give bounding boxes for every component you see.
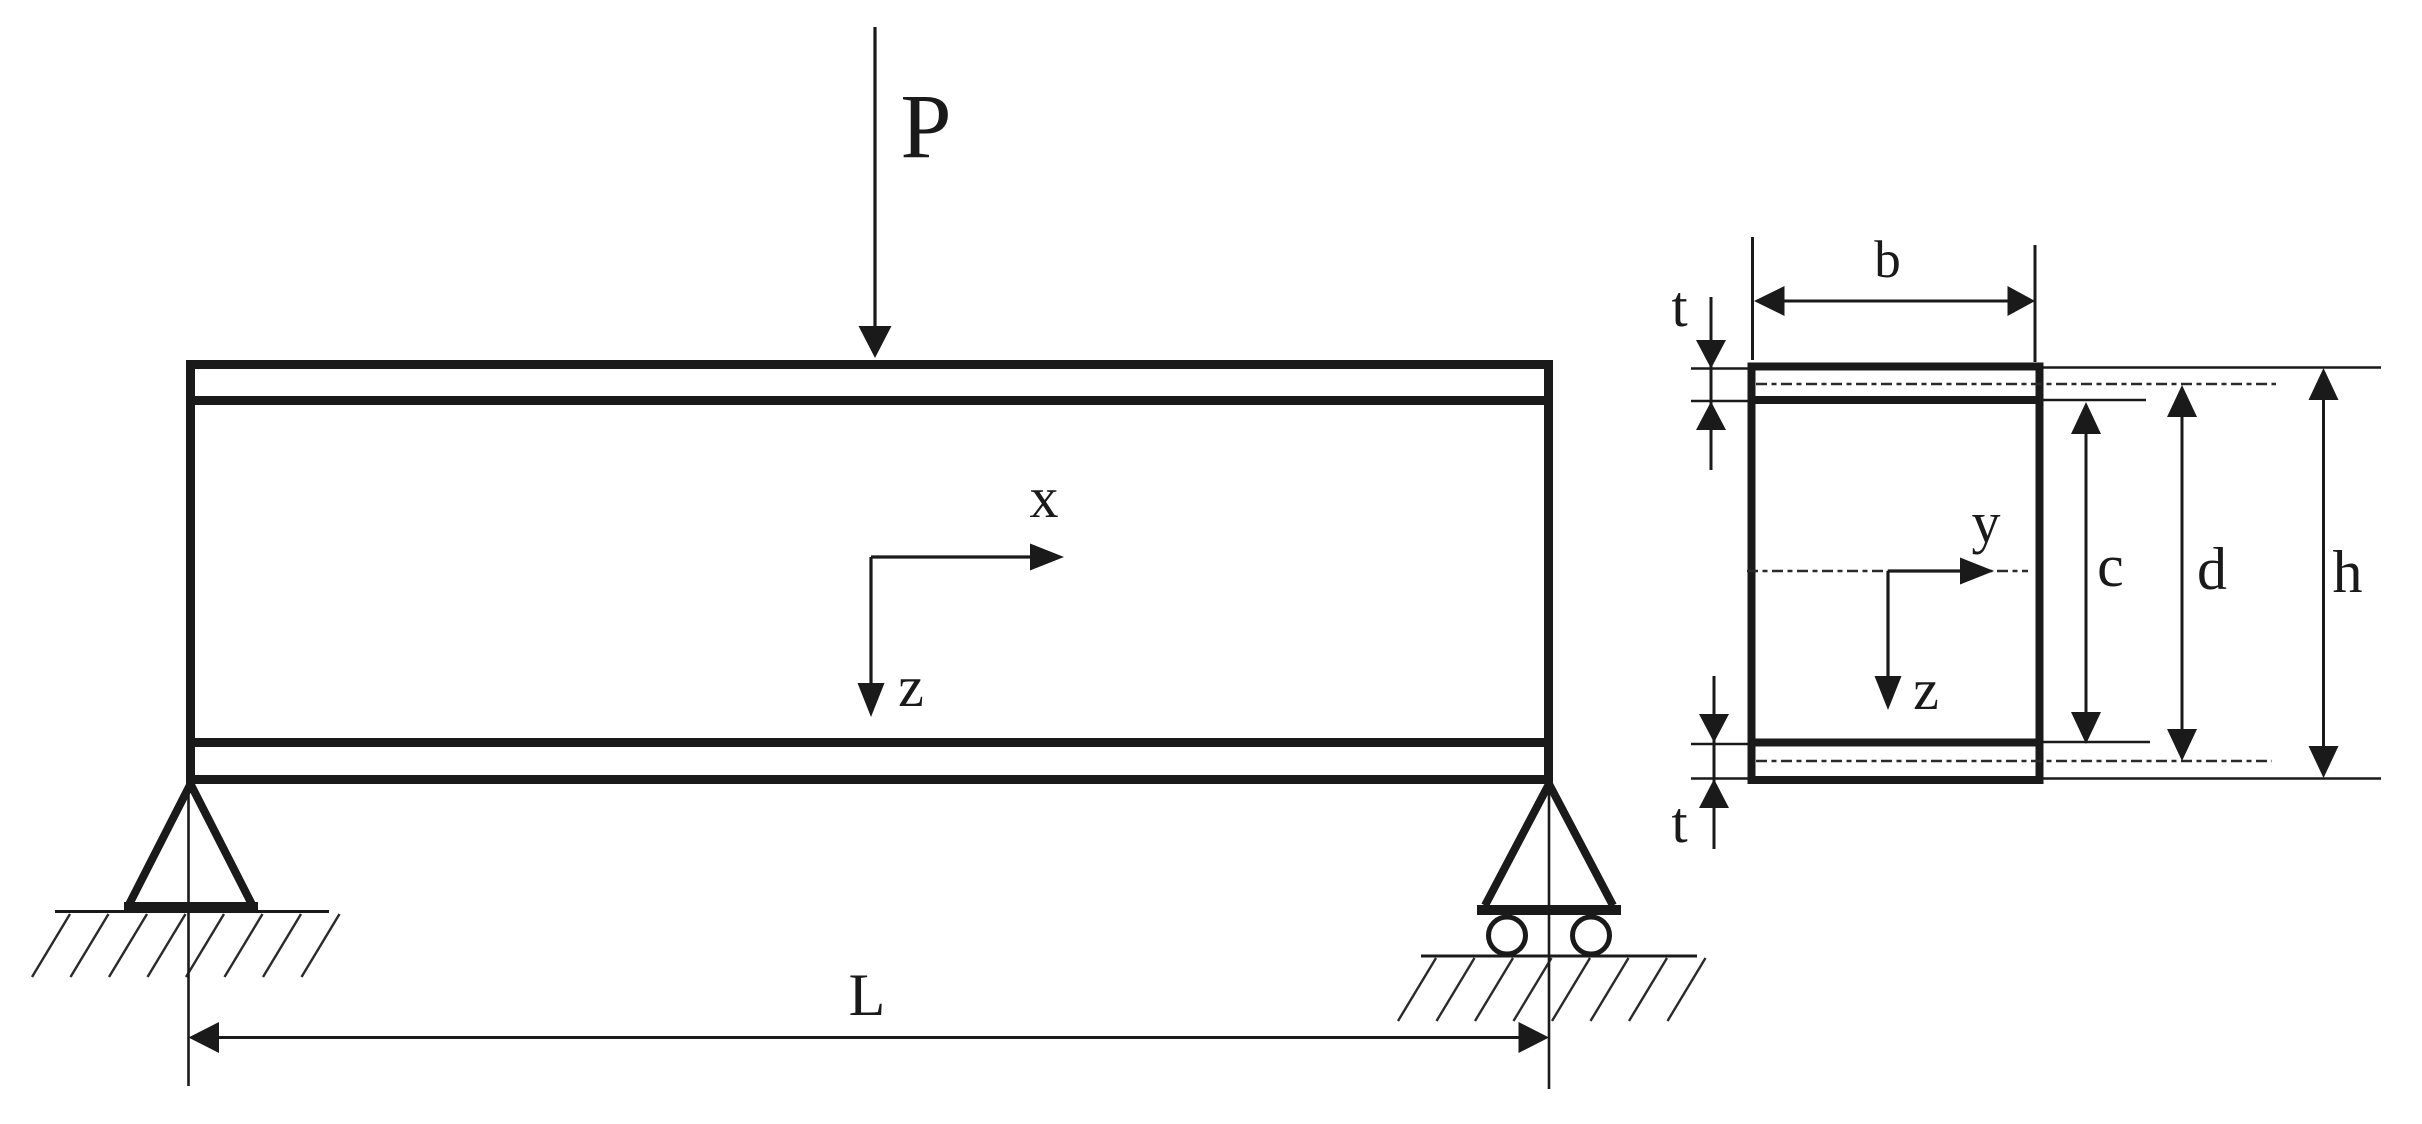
label t bottom [1671,790,1687,855]
label y [1972,490,2001,555]
ground line left [55,910,329,913]
cross-section top face sheet line [1752,396,2039,404]
dimension d [2167,385,2197,761]
ground line right [1421,955,1697,958]
roller circle 1 [1489,917,1526,954]
dimension b [1753,237,2036,362]
cross-section bottom face sheet line [1752,739,2039,747]
label L [849,962,886,1028]
label P [900,75,951,177]
extension line right support [1548,786,1551,1089]
extension line left support [187,786,190,1086]
svg-text:c: c [2097,533,2124,599]
svg-text:t: t [1671,274,1687,339]
y axis arrow [1888,558,1994,585]
svg-text:h: h [2333,539,2363,605]
dimension h [2043,368,2381,779]
label x [1030,465,1059,530]
svg-text:L: L [849,962,886,1028]
svg-text:t: t [1671,790,1687,855]
load arrow P [859,27,892,358]
z axis arrow section [1875,571,1902,710]
svg-text:P: P [900,75,951,177]
roller circle 2 [1573,917,1610,954]
cross-section outline [1752,367,2040,781]
roller support right [1477,784,1621,910]
ground hatching right [1398,958,1706,1021]
dimension t top [1691,297,1753,470]
dimension L [189,1022,1550,1053]
svg-text:y: y [1972,490,2001,555]
ground hatching left [32,914,340,977]
centerline neutral axis [1747,570,2028,573]
label c [2097,533,2124,599]
z axis arrow [858,557,885,717]
beam top face sheet line [186,396,1553,405]
centerline top flange [1756,383,2276,386]
svg-text:z: z [898,654,924,719]
label b [1874,231,1901,289]
dimension c [2043,400,2150,744]
svg-text:b: b [1874,231,1901,289]
label z section [1913,657,1939,722]
x axis arrow [871,544,1064,571]
label t top [1671,274,1687,339]
label h [2333,539,2363,605]
centerline bottom flange [1756,760,2272,763]
label z [898,654,924,719]
dimension t bottom [1691,676,1753,849]
beam outline [191,365,1549,780]
label d [2197,536,2227,602]
pin support left [124,784,258,907]
svg-text:d: d [2197,536,2227,602]
svg-text:x: x [1030,465,1059,530]
beam bottom face sheet line [186,738,1553,747]
svg-text:z: z [1913,657,1939,722]
